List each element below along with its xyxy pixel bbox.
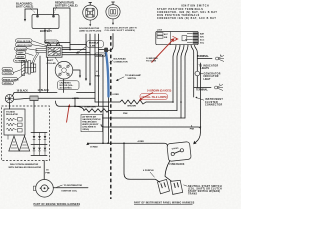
vertical link 4 ORN node — [74, 98, 76, 106]
svg-text:18 BROWN: 18 BROWN — [84, 106, 96, 108]
svg-text:6 PURPLE: 6 PURPLE — [143, 170, 154, 172]
svg-text:ORNG): ORNG) — [82, 129, 89, 131]
svg-text:SHIFT: SHIFT — [18, 53, 25, 55]
svg-text:CONNECTOR: CONNECTOR — [114, 61, 128, 63]
svg-text:PNK: PNK — [190, 129, 195, 131]
svg-text:COLLAR: COLLAR — [47, 62, 57, 65]
battery — [32, 15, 59, 29]
bulkhead connector body — [104, 48, 108, 53]
svg-text:SHIFT: SHIFT — [47, 60, 54, 62]
junction block into generator — [9, 103, 11, 109]
solenoid S1 — [46, 44, 62, 57]
label 6 PNK — [190, 125, 195, 130]
svg-text:DELCOTRON GENERATOR: DELCOTRON GENERATOR — [10, 163, 39, 166]
svg-text:PNK: PNK — [45, 173, 50, 175]
SOLENOID label — [45, 40, 59, 46]
svg-text:4 RED: 4 RED — [138, 140, 145, 143]
svg-text:START POSITION TERMINALS: START POSITION TERMINALS — [157, 8, 203, 11]
svg-text:14 BROWN (GAUGES): 14 BROWN (GAUGES) — [147, 89, 171, 92]
wire from plunger area down — [39, 56, 41, 93]
regulator-stator links — [8, 135, 25, 140]
stator winding triangle 2 — [19, 136, 29, 151]
svg-text:CLUSTER: CLUSTER — [205, 102, 218, 104]
svg-text:IGNITION COIL: IGNITION COIL — [62, 191, 78, 193]
battery negative lead to solenoid — [45, 29, 49, 44]
svg-text:BATT CABLE): BATT CABLE) — [16, 5, 33, 9]
junction block circle — [5, 95, 13, 104]
svg-text:WITH INSTALLED REGULATOR: WITH INSTALLED REGULATOR — [9, 166, 42, 169]
fuse block — [167, 142, 191, 162]
vertical wire x103 — [102, 57, 104, 143]
svg-text:LIGHTS: LIGHTS — [201, 68, 210, 70]
starter label bubble HOLD-IN COIL — [16, 43, 49, 47]
wire from solenoid bottom down — [47, 57, 49, 92]
svg-text:PNK: PNK — [123, 113, 128, 115]
svg-text:BATTERY CABLE): BATTERY CABLE) — [55, 3, 78, 7]
multiline wire gauge note box — [81, 115, 103, 132]
svg-text:CONNECTOR: CONNECTOR — [205, 105, 223, 107]
solenoid to motor link — [55, 57, 59, 62]
svg-text:BULKHEAD: BULKHEAD — [114, 58, 127, 61]
svg-text:LINK: LINK — [91, 46, 97, 48]
junction x70 on solenoid feed — [69, 49, 71, 51]
positive battery cable wire — [54, 8, 71, 43]
dash-dot bulkhead boundary — [110, 36, 112, 199]
tee to terminal symbol 1 — [197, 58, 212, 60]
arrow into fuse block — [193, 141, 196, 145]
terminal symbol 1 — [216, 54, 225, 61]
ammeter connector block — [30, 96, 38, 101]
CRANKING MOTOR label bubble — [58, 81, 80, 90]
label TO INDICATOR LIGHTS — [199, 64, 219, 70]
svg-text:COLUMN SHIFT HOMES): COLUMN SHIFT HOMES) — [105, 30, 136, 32]
generator dashed enclosure — [2, 106, 50, 161]
terminal symbol 2 — [215, 84, 224, 90]
svg-text:PART OF INSTRUMENT PANEL WIRIN: PART OF INSTRUMENT PANEL WIRING HARNESS — [134, 202, 195, 205]
purple loop wire to neutral start switch — [124, 143, 160, 182]
svg-text:BROWN: BROWN — [128, 106, 137, 108]
fuse feed wire — [196, 63, 201, 142]
svg-text:TERMINAL: TERMINAL — [196, 89, 208, 92]
label 12 BROWN TO IG SW — [146, 58, 158, 63]
bus2 wire with resistance wire 18 BROWN — [76, 106, 177, 112]
blue wire to bulkhead connector — [106, 52, 109, 97]
svg-text:IGN: IGN — [200, 37, 204, 39]
tee to terminal symbol 2 — [194, 87, 211, 89]
label PART OF INSTRUMENT PANEL WIRING HARNESS — [134, 202, 195, 205]
wire bundle v4 — [185, 45, 188, 118]
svg-text:FUSIBLE: FUSIBLE — [89, 43, 99, 45]
svg-text:(AND GLOW PLUGS): (AND GLOW PLUGS) — [80, 30, 102, 33]
lamp circuit wire vA — [191, 45, 194, 97]
fuse block to clutch switch wire — [165, 161, 172, 182]
svg-text:FUSE BLOCK: FUSE BLOCK — [170, 164, 185, 166]
label PART OF ENGINE WIRING HARNESS — [34, 203, 81, 206]
svg-text:SWITCH: SWITCH — [128, 78, 137, 80]
vertical wire x90 to solenoid with ground arrow — [62, 34, 91, 86]
red arrow pointing at ignition switch — [152, 38, 175, 62]
svg-text:START SWITCH W/(MAN): START SWITCH W/(MAN) — [188, 190, 220, 193]
distributor — [33, 180, 53, 198]
label INSTRUMENT CLUSTER CONNECTOR — [195, 97, 223, 107]
wire y98.3 with ammeter connector — [14, 98, 95, 99]
cranking motor M1 — [55, 61, 73, 79]
svg-text:TO INDICATOR: TO INDICATOR — [199, 64, 219, 67]
negative battery cable wire + ground arrow — [24, 9, 38, 22]
svg-text:CONNECTED IGN (N) BAT, ACC B B: CONNECTED IGN (N) BAT, ACC B BAT — [157, 17, 216, 20]
svg-text:BATTERY: BATTERY — [40, 29, 52, 33]
svg-text:ACTUATED): ACTUATED) — [60, 86, 72, 89]
diode D2 — [38, 133, 41, 145]
connector C2 (solenoid motor column shift) — [106, 2, 120, 19]
svg-text:SPRING: SPRING — [4, 83, 12, 85]
wire from motor bottom — [63, 79, 65, 93]
label GENERATOR INDICATOR LIGHT — [200, 72, 221, 81]
neutral start switch wedge 1 — [158, 179, 170, 193]
label TO HEADLAMP SWITCH — [116, 74, 142, 81]
label SHIFT COLLAR — [47, 60, 57, 65]
flywheel ring section — [22, 61, 25, 76]
ignition switch note text block — [157, 5, 217, 19]
label: C1 solenoid-motor — [79, 28, 102, 33]
junction dot v3-bus1 — [180, 101, 182, 103]
label 6 PURPLE — [143, 170, 155, 177]
vertical wire x95 — [94, 34, 96, 102]
svg-text:LOCK: LOCK — [157, 30, 163, 32]
svg-text:NEUTRAL START SWITCH: NEUTRAL START SWITCH — [188, 185, 222, 188]
svg-text:HOLD-IN COIL: HOLD-IN COIL — [17, 45, 32, 47]
red label 14 BROWN (GAUGES) — [140, 89, 171, 99]
label: RED(POSITIVE) BATTERY CABLE — [54, 0, 77, 12]
red arrow pointing up at 4 ORN junction — [67, 104, 71, 123]
wire bundle v2 — [177, 45, 180, 111]
svg-text:SOLENOID-MOTOR (WITH: SOLENOID-MOTOR (WITH — [105, 27, 137, 29]
svg-text:RED: RED — [95, 75, 100, 77]
shift lever arm — [32, 53, 40, 65]
stator winding triangle 1 — [9, 136, 19, 151]
svg-text:ACC: ACC — [200, 39, 205, 42]
svg-text:CONNECTED- IGN (N) BAT, SOL B: CONNECTED- IGN (N) BAT, SOL B BAT — [157, 11, 217, 14]
svg-text:TERMINAL: TERMINAL — [197, 55, 209, 58]
diode D3 — [44, 133, 47, 145]
voltage regulator box — [4, 109, 25, 135]
arrow from C2 to its label — [112, 19, 114, 25]
label PURPLE — [95, 53, 106, 57]
svg-text:INDICATOR: INDICATOR — [204, 75, 219, 78]
svg-text:GENERATOR: GENERATOR — [204, 72, 221, 75]
label: BATTERY — [40, 29, 52, 34]
svg-text:18 RED: 18 RED — [90, 147, 98, 149]
svg-text:PURPLE: PURPLE — [96, 55, 105, 57]
svg-text:INSTRUMENT: INSTRUMENT — [205, 99, 223, 101]
svg-text:IGNITION SWITCH: IGNITION SWITCH — [181, 5, 209, 7]
solenoid right-side wires — [62, 45, 103, 58]
diode D1 — [33, 133, 36, 145]
vertical wire x98.5 — [98, 34, 100, 106]
label: C2 solenoid-motor column shift — [105, 27, 137, 32]
label: BLACK(NEG) BATT CABLE — [16, 2, 36, 13]
generator indicator light bulb — [195, 71, 200, 76]
bus3 wire — [103, 117, 186, 119]
wire bundle from switch to v1 — [173, 45, 176, 102]
ignition switch box — [156, 30, 205, 45]
svg-text:6 RED: 6 RED — [113, 94, 120, 96]
diode D4 — [33, 145, 36, 156]
starter label bubble PINION CLUTCH — [2, 68, 22, 76]
svg-text:PULL-IN COIL: PULL-IN COIL — [17, 41, 31, 43]
starter label bubble FLYWHEEL — [14, 59, 29, 63]
junction dot bus1/v1 — [172, 101, 174, 103]
neutral start switch wedge 2 — [171, 180, 183, 194]
starter label bubble SHIFT LEVER — [16, 51, 34, 59]
label BULKHEAD CONNECTOR — [110, 58, 128, 64]
positive cable into solenoid terminal — [58, 43, 70, 50]
svg-text:PLUNGER: PLUNGER — [16, 49, 27, 51]
bus6 wire y106 — [56, 101, 109, 106]
diode D6 — [44, 145, 47, 156]
blue wire top connector stub — [99, 34, 114, 51]
svg-text:TO HEADLAMP: TO HEADLAMP — [125, 74, 142, 77]
starter label bubble PINION COMPR SPRING — [2, 75, 24, 86]
arrow from C1 to its label — [89, 20, 91, 26]
svg-text:12 BROWN: 12 BROWN — [146, 58, 158, 60]
svg-text:TRANS: TRANS — [188, 193, 197, 196]
svg-text:4 ORN: 4 ORN — [72, 97, 79, 100]
generator output stub through top — [33, 101, 35, 133]
svg-text:LIGHT: LIGHT — [204, 79, 211, 81]
svg-text:PINION: PINION — [4, 69, 12, 71]
svg-text:PART OF ENGINE WIRING HARNESS: PART OF ENGINE WIRING HARNESS — [34, 203, 81, 206]
bus1 wire with resistance wire (BROWN) — [95, 100, 173, 104]
svg-text:TO IG SW: TO IG SW — [146, 61, 157, 63]
label 4 RED vertical pair — [95, 70, 100, 77]
svg-text:ACC: ACC — [164, 33, 169, 36]
svg-text:LEVER: LEVER — [17, 57, 24, 59]
FUSIBLE LINK bubble label — [76, 41, 104, 54]
svg-text:PINION COMPR: PINION COMPR — [3, 79, 19, 81]
link junction block to wires — [13, 93, 15, 96]
connector C1 (solenoid-motor glow plug) — [83, 2, 98, 20]
vertical wire x108 — [108, 97, 110, 143]
label NEUTRAL START SWITCH block — [184, 185, 223, 196]
wire y92.5 black leads — [14, 92, 95, 94]
svg-text:REGULATOR: REGULATOR — [6, 113, 18, 116]
pinion clutch gear stack — [25, 61, 36, 75]
plunger rod — [36, 49, 46, 53]
motor ground stub — [73, 70, 81, 78]
label TO DISTRIBUTOR — [57, 185, 83, 193]
bus4 wire — [101, 125, 200, 130]
wire bundle v3 — [181, 45, 184, 118]
starter label bubble PLUNGER — [15, 47, 38, 51]
junction dot 4 ORN — [74, 97, 76, 99]
svg-text:CLUTCH: CLUTCH — [4, 73, 13, 75]
vertical wire x86 to solenoid with ground arrow — [62, 34, 87, 81]
distributor feed wire 18 PNK — [43, 161, 45, 180]
rectifier rails — [31, 133, 47, 156]
svg-text:TO DISTRIBUTOR: TO DISTRIBUTOR — [64, 185, 83, 187]
wire distributor to ignition coil — [53, 187, 88, 189]
label DELCOTRON GENERATOR — [9, 163, 42, 169]
svg-text:18 BLACK: 18 BLACK — [17, 90, 29, 93]
lamp circuit wire vB — [195, 45, 198, 88]
diode D5 — [38, 145, 41, 156]
bus5 wire 4 RED to fuse block — [86, 142, 167, 146]
junction dot bus4-feed — [200, 126, 202, 128]
red arrow to resistance wire — [139, 93, 153, 101]
starter label bubble PULL-IN COIL — [16, 39, 47, 46]
label 18 PNK — [45, 169, 50, 174]
svg-text:RUN POSITION TERMINALS: RUN POSITION TERMINALS — [157, 14, 200, 17]
